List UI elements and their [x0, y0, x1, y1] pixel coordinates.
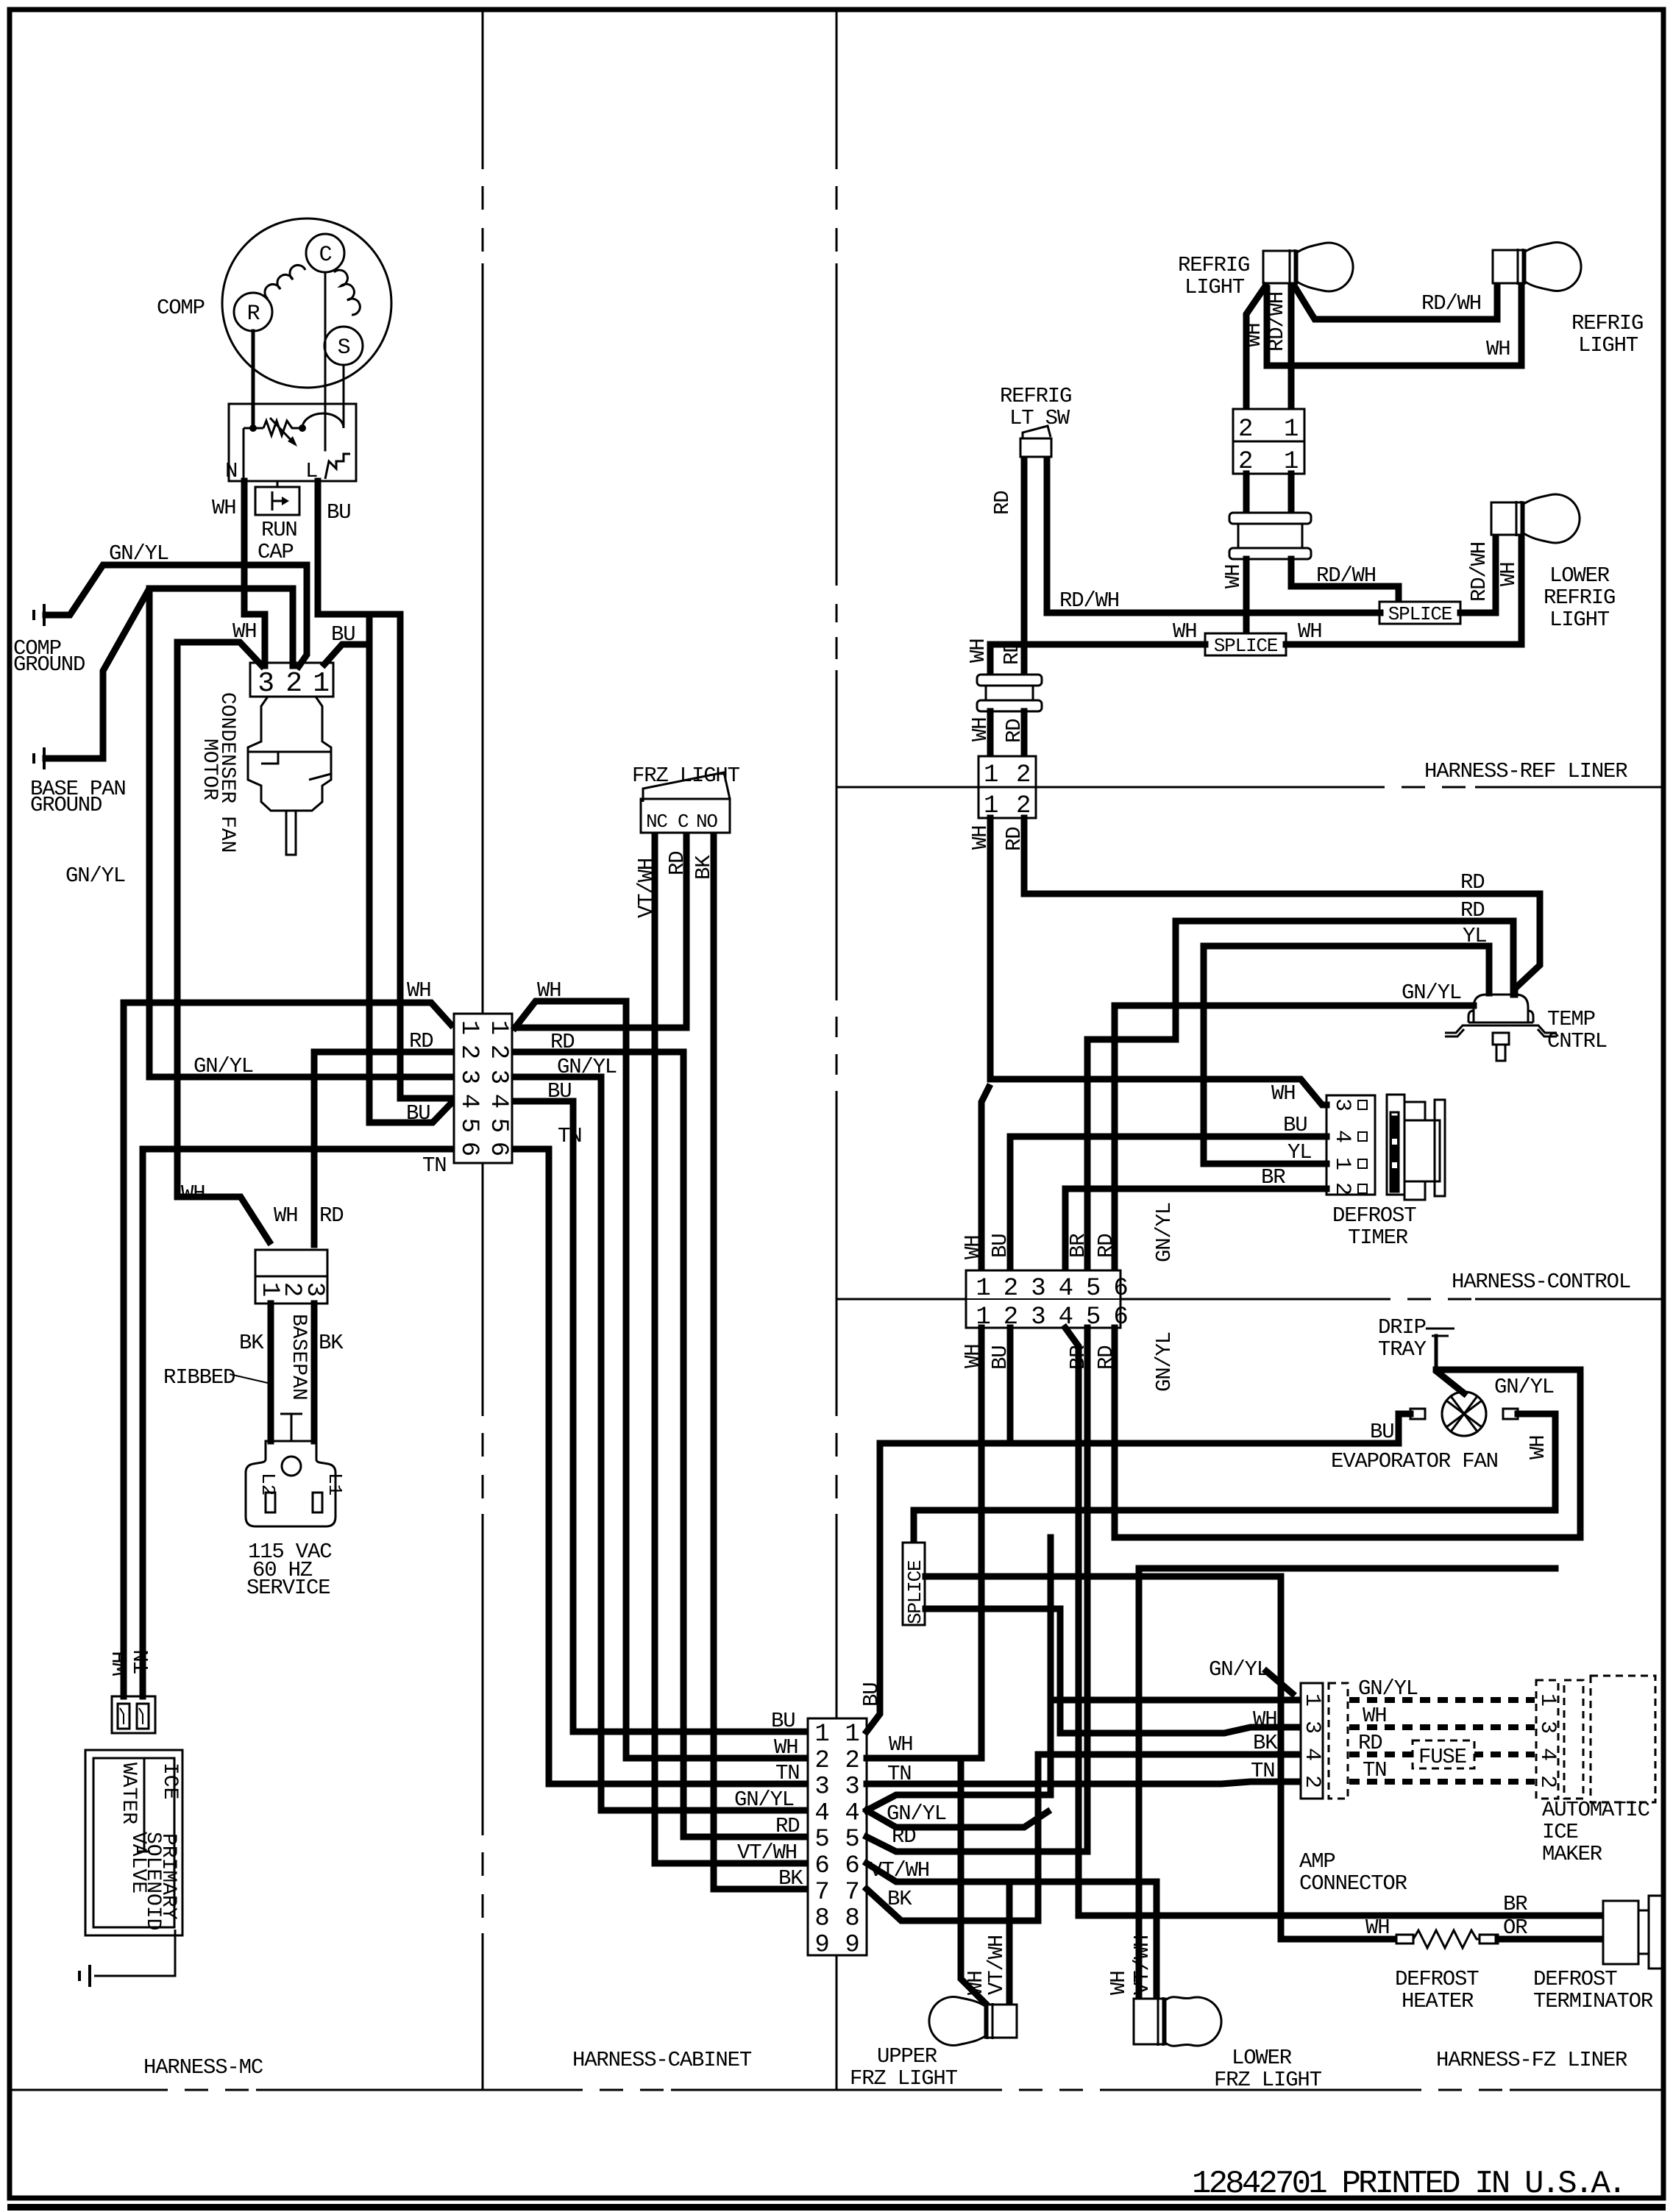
wire R-relay	[252, 331, 255, 428]
wire WH fan pin3	[177, 642, 262, 666]
svg-text:2: 2	[1535, 1775, 1560, 1788]
svg-text:TEMP: TEMP	[1547, 1007, 1595, 1031]
FUSE dashed box	[1413, 1740, 1474, 1768]
ground comp	[34, 604, 44, 626]
svg-text:3: 3	[1299, 1721, 1324, 1734]
svg-text:BU: BU	[406, 1101, 430, 1125]
vertical section divider 1 (x=656)	[482, 12, 484, 169]
wire GN/YL up	[867, 1537, 1051, 1810]
svg-text:6: 6	[484, 1142, 512, 1156]
svg-text:4: 4	[1329, 1130, 1354, 1143]
water valve connector P5	[112, 1696, 155, 1733]
svg-text:GROUND: GROUND	[30, 793, 102, 817]
svg-text:4: 4	[1299, 1748, 1324, 1761]
start winding coil R-C	[265, 265, 305, 299]
drawing-area bottom line y=2841 with dash gaps	[12, 2089, 168, 2091]
wire WH down to valve	[121, 1003, 127, 1696]
svg-text:GN/YL: GN/YL	[1402, 981, 1461, 1005]
svg-text:TN: TN	[1363, 1758, 1386, 1782]
wire WH upper light	[867, 1758, 988, 2006]
wire RD/WH J3-grommet	[1288, 474, 1295, 515]
wire GN/YL down	[149, 588, 451, 1077]
svg-text:1: 1	[484, 1020, 512, 1035]
grommet refrig	[1229, 513, 1311, 559]
svg-text:GN/YL: GN/YL	[65, 864, 125, 888]
svg-text:8: 8	[845, 1905, 859, 1933]
svg-text:WH: WH	[1298, 619, 1321, 644]
refrig light 1	[1263, 243, 1353, 291]
wire BU control join	[1007, 1328, 1014, 1443]
svg-text:DEFROST: DEFROST	[1332, 1203, 1416, 1228]
svg-text:FRZ LIGHT: FRZ LIGHT	[1214, 2068, 1322, 2092]
RUN CAP box C1	[277, 481, 279, 487]
splice RD/WH	[1379, 602, 1460, 624]
refrig 2-pin connector J3	[1233, 409, 1304, 441]
svg-text:3: 3	[455, 1070, 483, 1084]
svg-text:WH: WH	[1253, 1707, 1276, 1732]
wire VT/WH lights	[867, 1863, 1157, 1999]
svg-text:YL: YL	[1287, 1140, 1311, 1164]
svg-text:RD/WH: RD/WH	[1421, 291, 1481, 316]
condenser fan motor body M1	[248, 697, 331, 855]
svg-text:FRZ LIGHT: FRZ LIGHT	[850, 2066, 958, 2091]
svg-text:HARNESS-MC: HARNESS-MC	[143, 2055, 263, 2080]
wire VT/WH branch upper	[1006, 1882, 1013, 2006]
svg-text:RD/WH: RD/WH	[1467, 542, 1491, 602]
svg-text:4: 4	[1059, 1275, 1073, 1303]
svg-text:5: 5	[455, 1118, 483, 1133]
MC/cabinet 6-pin connector J1	[454, 1014, 512, 1163]
wire WH light3-splice2	[1286, 535, 1521, 644]
wire RD/WH light1	[1288, 286, 1295, 409]
wire GN/YL amp	[1051, 1697, 1298, 1704]
svg-text:1: 1	[976, 1275, 990, 1303]
wire WH-RD link	[515, 1025, 686, 1031]
cabinet/freezer 9-pin connector J2	[808, 1718, 867, 1955]
svg-text:8: 8	[814, 1905, 828, 1933]
svg-text:UPPER: UPPER	[877, 2044, 937, 2069]
svg-text:TERMINATOR: TERMINATOR	[1533, 1989, 1653, 2013]
svg-text:LIGHT: LIGHT	[1184, 275, 1245, 299]
svg-text:9: 9	[845, 1931, 859, 1959]
wire WH horizontal to 6pin pin1	[124, 1003, 451, 1025]
svg-text:MAKER: MAKER	[1542, 1842, 1602, 1866]
svg-text:LOWER: LOWER	[1232, 2046, 1292, 2070]
svg-text:3: 3	[257, 668, 274, 700]
svg-text:12842701 PRINTED IN U.S.A.: 12842701 PRINTED IN U.S.A.	[1192, 2166, 1624, 2202]
svg-text:4: 4	[1535, 1748, 1560, 1761]
compressor terminal S	[324, 327, 363, 365]
svg-text:GN/YL: GN/YL	[1494, 1375, 1554, 1399]
wire BK frz	[714, 837, 805, 1889]
svg-text:WH: WH	[1496, 563, 1521, 586]
ref liner 1-2 connector J4	[978, 756, 1036, 787]
svg-text:WH: WH	[212, 496, 235, 520]
HARNESS-REF LINER divider line y=1070	[836, 786, 978, 789]
svg-text:REFRIG: REFRIG	[1178, 253, 1249, 277]
compressor COMP outer circle	[222, 218, 391, 388]
svg-text:4: 4	[455, 1094, 483, 1109]
wire BU relay	[318, 481, 451, 1098]
wire BR defrost	[1065, 1328, 1603, 1916]
wire WH splice2-left	[990, 644, 1205, 675]
svg-text:SERVICE: SERVICE	[246, 1576, 330, 1600]
wire WH splice3-amp	[926, 1609, 1298, 1733]
svg-text:3: 3	[1535, 1721, 1560, 1734]
condenser fan motor connector 3-2-1	[250, 663, 333, 697]
svg-text:RUN: RUN	[261, 518, 297, 542]
svg-text:RIBBED: RIBBED	[163, 1365, 235, 1390]
wire WH J4-timer	[990, 818, 1326, 1105]
svg-text:1: 1	[1284, 416, 1298, 444]
wire BU cab	[515, 1101, 805, 1732]
svg-text:BASEPAN: BASEPAN	[287, 1314, 310, 1401]
defrost timer motor body	[1387, 1095, 1445, 1200]
svg-text:GROUND: GROUND	[13, 652, 85, 677]
svg-text:7: 7	[845, 1879, 859, 1907]
wire RD frz	[683, 837, 690, 1028]
svg-text:GN/YL: GN/YL	[109, 541, 168, 566]
wire RD/WH grommet-splice1	[1291, 559, 1399, 602]
wire BU timer	[1010, 1137, 1326, 1270]
svg-text:S: S	[338, 335, 350, 360]
svg-text:4: 4	[484, 1094, 512, 1109]
svg-text:4: 4	[814, 1799, 828, 1827]
svg-text:FUSE: FUSE	[1418, 1745, 1466, 1769]
svg-text:3: 3	[484, 1070, 512, 1084]
splice WH	[1205, 633, 1286, 655]
wire valve to ground	[94, 1930, 175, 1976]
temp control TH1	[1445, 995, 1557, 1061]
svg-text:3: 3	[300, 1282, 328, 1297]
svg-text:BU: BU	[771, 1709, 795, 1733]
svg-text:1: 1	[1299, 1693, 1324, 1707]
wire TN	[143, 1149, 451, 1696]
evap fan terminals	[1410, 1409, 1425, 1419]
svg-text:R: R	[247, 302, 260, 327]
svg-text:WH: WH	[961, 1236, 985, 1259]
wire RD g2-J4	[1021, 711, 1028, 756]
wire GN/YL 2	[46, 588, 293, 758]
svg-text:RD/WH: RD/WH	[1265, 292, 1289, 352]
svg-text:WH: WH	[1271, 1081, 1295, 1106]
wire GN/YL evap	[1438, 1373, 1464, 1393]
svg-text:WH: WH	[1242, 324, 1266, 347]
svg-text:1: 1	[845, 1721, 859, 1749]
svg-text:REFRIG: REFRIG	[1571, 311, 1643, 335]
115VAC service plug P4	[246, 1441, 335, 1526]
dotted harness wires to ice maker	[1349, 1697, 1535, 1703]
svg-text:LIGHT: LIGHT	[1549, 608, 1610, 632]
wire RD/WH switch	[1044, 460, 1051, 613]
wire TN amp	[867, 1782, 1298, 1784]
svg-text:2: 2	[285, 668, 302, 700]
wire WH evap	[914, 1414, 1555, 1545]
svg-text:HARNESS-REF LINER: HARNESS-REF LINER	[1424, 759, 1627, 783]
wire VT/WH frz	[655, 837, 805, 1863]
upper frz light	[929, 1997, 1017, 2046]
svg-text:1: 1	[984, 761, 998, 789]
svg-text:LT SW: LT SW	[1009, 406, 1070, 430]
splice WH freezer	[903, 1543, 925, 1625]
svg-text:DRIP: DRIP	[1378, 1315, 1426, 1340]
junction dot R	[249, 424, 257, 432]
svg-text:SPLICE: SPLICE	[1214, 635, 1278, 657]
HARNESS-CONTROL divider line y=1766	[836, 1298, 966, 1301]
svg-text:WH: WH	[774, 1735, 798, 1760]
wire BU tap fan pin1	[324, 617, 369, 664]
svg-text:L2: L2	[257, 1473, 279, 1496]
wire S-relay	[343, 365, 345, 425]
wire BK L1	[311, 1304, 318, 1441]
svg-text:ICE: ICE	[158, 1763, 181, 1799]
wire WH branch to control pin1	[981, 1087, 989, 1270]
svg-text:ICE: ICE	[1542, 1820, 1578, 1844]
wire RD switch	[1021, 460, 1028, 675]
bottom thick bar	[7, 2204, 1666, 2211]
wire WH relay-fan	[244, 481, 265, 666]
wire BU fan-J1	[369, 644, 451, 1123]
wire BU evap	[867, 1414, 1410, 1732]
svg-text:9: 9	[814, 1931, 828, 1959]
svg-text:BK: BK	[239, 1331, 264, 1355]
svg-text:3: 3	[1031, 1304, 1045, 1331]
svg-text:MOTOR: MOTOR	[198, 739, 221, 800]
wire GN/YL temp	[1115, 1006, 1474, 1270]
svg-text:WH: WH	[1526, 1436, 1550, 1459]
svg-text:GN/YL: GN/YL	[734, 1788, 794, 1812]
wire RD down	[867, 1328, 1087, 1852]
svg-text:REFRIG: REFRIG	[1000, 384, 1071, 408]
wire C-relay	[324, 272, 327, 450]
defrost timer connector TD1	[1326, 1095, 1375, 1195]
svg-text:2: 2	[814, 1747, 828, 1775]
svg-text:2: 2	[1004, 1275, 1017, 1303]
wire YL	[1204, 946, 1489, 1164]
svg-text:REFRIG: REFRIG	[1544, 586, 1615, 610]
svg-text:LOWER: LOWER	[1549, 563, 1610, 588]
svg-text:RD: RD	[1000, 641, 1024, 665]
drip tray ground symbol	[1426, 1328, 1454, 1330]
svg-text:RD: RD	[990, 491, 1015, 515]
wire WH defrost	[926, 1576, 1396, 1939]
lower refrig light	[1491, 494, 1580, 543]
svg-text:DEFROST: DEFROST	[1395, 1967, 1479, 1991]
valve internal wire	[143, 1758, 146, 1852]
svg-text:6: 6	[455, 1142, 483, 1156]
svg-text:WATER: WATER	[117, 1763, 140, 1824]
svg-text:RD: RD	[409, 1029, 433, 1053]
relay internal wire with PTC resistor	[244, 427, 263, 430]
svg-text:EVAPORATOR FAN: EVAPORATOR FAN	[1331, 1449, 1498, 1473]
svg-text:WH: WH	[181, 1181, 205, 1206]
svg-text:5: 5	[484, 1118, 512, 1133]
svg-text:BU: BU	[327, 500, 350, 524]
wire WH J3-grommet	[1243, 474, 1250, 515]
ground base pan	[34, 747, 44, 769]
wire drip tray	[1435, 1336, 1438, 1370]
svg-text:1: 1	[1535, 1693, 1560, 1707]
svg-text:AUTOMATIC: AUTOMATIC	[1542, 1798, 1650, 1822]
control 6-pin connector J5	[966, 1270, 1120, 1328]
svg-text:1: 1	[814, 1721, 828, 1749]
wire WH light1	[1246, 286, 1265, 409]
svg-text:SPLICE: SPLICE	[1388, 603, 1452, 625]
svg-text:2: 2	[1299, 1775, 1324, 1788]
svg-text:3: 3	[845, 1774, 859, 1802]
relay internal left leg to N	[243, 428, 245, 480]
defrost heater HR1	[1396, 1935, 1413, 1943]
svg-text:BU: BU	[331, 622, 355, 647]
svg-text:RD/WH: RD/WH	[1059, 588, 1119, 613]
ground valve	[79, 1965, 90, 1987]
svg-text:VALVE: VALVE	[127, 1832, 149, 1893]
svg-text:BR: BR	[1066, 1234, 1090, 1258]
svg-text:2: 2	[1016, 761, 1030, 789]
wire RD2 temp	[1087, 921, 1513, 1270]
wire WH vertical	[177, 642, 269, 1242]
svg-text:7: 7	[814, 1879, 828, 1907]
svg-text:WH: WH	[1107, 1971, 1131, 1995]
svg-text:TN: TN	[558, 1124, 581, 1148]
svg-text:GN/YL: GN/YL	[887, 1802, 946, 1826]
svg-text:TN: TN	[1251, 1759, 1274, 1783]
wire BR timer	[1065, 1189, 1326, 1270]
svg-text:TN: TN	[775, 1761, 799, 1785]
svg-text:4: 4	[845, 1799, 859, 1827]
svg-text:6: 6	[814, 1852, 828, 1880]
svg-text:GN/YL: GN/YL	[1152, 1332, 1176, 1392]
svg-text:3: 3	[1031, 1275, 1045, 1303]
svg-text:BK: BK	[778, 1866, 803, 1891]
svg-text:2: 2	[484, 1045, 512, 1059]
svg-text:2: 2	[1329, 1182, 1354, 1195]
svg-text:VT/WH: VT/WH	[737, 1841, 797, 1865]
svg-text:BK: BK	[1253, 1731, 1278, 1755]
svg-text:5: 5	[814, 1826, 828, 1854]
svg-text:RD: RD	[1460, 870, 1484, 895]
svg-text:RD/WH: RD/WH	[1316, 563, 1376, 588]
svg-text:WH: WH	[407, 978, 430, 1003]
svg-text:TRAY: TRAY	[1378, 1337, 1427, 1362]
wire RD basepan	[314, 1052, 451, 1245]
ice maker dashed connector columns	[1329, 1676, 1655, 1802]
svg-text:HARNESS-FZ LINER: HARNESS-FZ LINER	[1436, 2048, 1627, 2072]
svg-text:CAP: CAP	[257, 540, 294, 564]
svg-text:NC: NC	[646, 811, 667, 833]
svg-text:WH: WH	[1221, 565, 1246, 588]
svg-text:WH: WH	[889, 1732, 912, 1757]
svg-text:BU: BU	[1370, 1420, 1393, 1444]
grommet ref liner	[977, 675, 1042, 711]
wire WH grommet-splice	[1243, 559, 1250, 633]
svg-text:RD: RD	[1094, 1234, 1118, 1258]
svg-text:WH: WH	[274, 1203, 297, 1228]
svg-text:HARNESS-CONTROL: HARNESS-CONTROL	[1452, 1270, 1630, 1294]
wire WH g2-J4	[987, 711, 994, 756]
wire GN/YL 1	[46, 565, 307, 666]
svg-text:RD: RD	[1460, 898, 1484, 922]
svg-text:2: 2	[455, 1045, 483, 1059]
wire WH lights	[1139, 1568, 1555, 1999]
svg-text:LIGHT: LIGHT	[1578, 333, 1638, 358]
evaporator fan M2	[1442, 1392, 1486, 1436]
svg-text:2: 2	[845, 1747, 859, 1775]
defrost terminator TH2	[1603, 1901, 1638, 1964]
svg-text:VT/WH: VT/WH	[984, 1935, 1009, 1995]
svg-text:1: 1	[1329, 1157, 1354, 1170]
overload PTC relay box U1	[229, 404, 356, 481]
wire GN/YL rhombus	[867, 1810, 1048, 1827]
svg-text:WH: WH	[1365, 1916, 1389, 1940]
svg-text:AMP: AMP	[1299, 1849, 1335, 1874]
wire GN/YL cab	[515, 1077, 805, 1810]
lower frz light	[1134, 1997, 1221, 2046]
svg-text:BR: BR	[1503, 1892, 1527, 1916]
svg-text:CNTRL: CNTRL	[1547, 1029, 1607, 1053]
svg-text:YL: YL	[1463, 924, 1486, 948]
wire RD J4-temp	[1024, 818, 1540, 995]
wire RD cab	[515, 1052, 805, 1837]
svg-text:GN/YL: GN/YL	[1152, 1203, 1176, 1262]
svg-text:HEATER: HEATER	[1402, 1989, 1474, 2013]
junction dot C	[299, 424, 306, 432]
refrig light 2	[1493, 243, 1581, 291]
svg-text:2: 2	[1238, 416, 1252, 444]
svg-text:GN/YL: GN/YL	[1209, 1657, 1268, 1682]
svg-text:TIMER: TIMER	[1348, 1226, 1408, 1250]
svg-text:CONNECTOR: CONNECTOR	[1299, 1871, 1407, 1896]
wire WH control join	[961, 1328, 981, 1758]
svg-text:6: 6	[1113, 1275, 1127, 1303]
svg-text:GN/YL: GN/YL	[1358, 1676, 1418, 1701]
svg-text:WH: WH	[1363, 1704, 1386, 1728]
svg-text:RD: RD	[319, 1203, 343, 1228]
water valve box: ICE WATER PRIMARY SOLENOID VALVE	[85, 1750, 182, 1935]
wire GN/YL evap2	[1115, 1328, 1580, 1537]
svg-text:C: C	[678, 811, 689, 833]
wire hop arc to S leg	[302, 413, 344, 428]
wire WH light2 return	[1267, 286, 1521, 366]
svg-text:COMP: COMP	[157, 296, 205, 320]
svg-text:5: 5	[1086, 1275, 1100, 1303]
svg-text:3: 3	[814, 1774, 828, 1802]
svg-text:TN: TN	[422, 1153, 446, 1178]
svg-text:WH: WH	[966, 639, 990, 663]
svg-text:1: 1	[455, 1020, 483, 1035]
svg-text:6: 6	[845, 1852, 859, 1880]
svg-text:DEFROST: DEFROST	[1533, 1967, 1617, 1991]
vertical section divider 2 (x=1137)	[836, 12, 838, 169]
wire BK amp	[867, 1754, 1298, 1921]
wire RD/WH splice1-light3	[1460, 535, 1496, 613]
svg-text:N: N	[225, 459, 237, 483]
svg-text:RD: RD	[1358, 1731, 1382, 1755]
compressor terminal C	[306, 234, 344, 272]
basepan connector P3	[255, 1250, 327, 1304]
relay switch contact	[325, 454, 350, 479]
svg-text:C: C	[319, 243, 332, 268]
PTC arrow	[270, 418, 295, 444]
svg-text:RD: RD	[775, 1814, 799, 1838]
svg-text:WH: WH	[1486, 337, 1510, 361]
svg-text:BU: BU	[988, 1234, 1012, 1258]
svg-text:NO: NO	[696, 811, 717, 833]
svg-text:BK: BK	[319, 1331, 344, 1355]
svg-text:HARNESS-CABINET: HARNESS-CABINET	[572, 2048, 752, 2072]
svg-text:L1: L1	[324, 1473, 346, 1496]
svg-text:SPLICE: SPLICE	[904, 1560, 926, 1624]
